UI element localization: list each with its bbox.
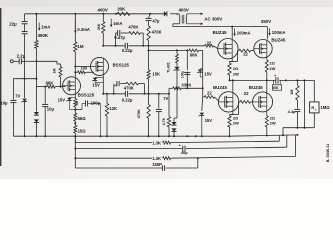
- svg-text:390K: 390K: [38, 33, 49, 38]
- current arrow 100mA Q6: [269, 28, 271, 35]
- svg-text:100mA: 100mA: [237, 31, 251, 36]
- svg-text:100µ: 100µ: [181, 71, 185, 78]
- resistor 2ohm source Q8: [266, 112, 268, 116]
- svg-text:2.2µ: 2.2µ: [17, 53, 26, 58]
- svg-text:470K: 470K: [124, 85, 134, 90]
- transistor Q1 BSS125 lower: [63, 77, 81, 95]
- capacitor 0.22u upper: [124, 43, 126, 49]
- svg-text:1M: 1M: [77, 44, 83, 49]
- capacitor 100u mid: [158, 94, 160, 109]
- svg-text:100mA: 100mA: [272, 30, 286, 35]
- wire top rail after diode: [170, 13, 177, 15]
- svg-text:30K: 30K: [117, 7, 126, 12]
- svg-text:2W: 2W: [233, 121, 239, 126]
- svg-text:7V: 7V: [15, 93, 20, 98]
- resistor gate stopper vertical: [59, 67, 62, 78]
- svg-text:47µ: 47µ: [152, 19, 160, 24]
- svg-text:1M: 1M: [53, 69, 57, 74]
- svg-text:600: 600: [273, 86, 279, 90]
- svg-text:56: 56: [75, 101, 79, 105]
- transformer T1 secondary: [185, 15, 188, 18]
- svg-text:1.3K: 1.3K: [152, 156, 161, 161]
- svg-text:4.4µ: 4.4µ: [288, 109, 297, 114]
- svg-text:100: 100: [81, 65, 88, 70]
- svg-text:15Ω: 15Ω: [78, 129, 87, 134]
- svg-text:1mA: 1mA: [41, 25, 50, 30]
- resistor 22 gate Q6: [237, 51, 239, 62]
- transistor Q2 BSS125 upper: [91, 57, 109, 75]
- svg-text:15V: 15V: [58, 98, 66, 103]
- scan left edge mark: [0, 8, 1, 166]
- regulator TL431: [176, 50, 178, 54]
- capacitor 40u feedback: [75, 148, 182, 150]
- zener 15V upper gate: [200, 68, 203, 70]
- ground rail: [13, 135, 229, 137]
- svg-text:1MΩ: 1MΩ: [320, 105, 330, 110]
- svg-text:470K: 470K: [137, 109, 141, 118]
- resistor 390K: [35, 14, 37, 41]
- input terminal: [10, 60, 13, 63]
- zener 15V lower gate: [201, 97, 204, 111]
- capacitor 22u dual: [24, 14, 26, 21]
- svg-text:2W: 2W: [233, 71, 239, 76]
- svg-text:BUZ45: BUZ45: [213, 85, 227, 90]
- svg-text:36K: 36K: [97, 23, 101, 30]
- svg-text:66K: 66K: [46, 80, 54, 85]
- wire TL431 chain to ground: [176, 88, 178, 118]
- diodes D2 D3 series: [35, 87, 37, 112]
- node 350V rail: [173, 26, 268, 28]
- transformer core: [181, 15, 183, 24]
- resistor 56ohm: [74, 107, 76, 113]
- wire parallel load left: [304, 80, 306, 127]
- resistor 22 gate Q5: [205, 44, 214, 47]
- svg-text:0.22µ: 0.22µ: [122, 48, 133, 53]
- svg-text:66K: 66K: [190, 53, 198, 58]
- resistor 4.7K: [168, 94, 170, 117]
- resistor 56 upper source chain: [74, 99, 77, 107]
- svg-text:22: 22: [243, 52, 248, 57]
- svg-text:470K: 470K: [152, 30, 162, 35]
- svg-text:40µ: 40µ: [181, 150, 188, 155]
- capacitor 100u TL431: [186, 72, 188, 89]
- svg-text:15V: 15V: [92, 83, 100, 88]
- primary bottom return: [173, 23, 179, 25]
- wire Q1 source lead: [74, 95, 76, 99]
- svg-text:7V: 7V: [163, 96, 168, 101]
- svg-text:BUZ45: BUZ45: [213, 30, 227, 35]
- capacitor 4.7u output: [296, 100, 298, 109]
- wire drive upper: [103, 45, 125, 47]
- svg-text:100µ: 100µ: [91, 101, 101, 106]
- capacitor 47u supply: [149, 14, 151, 18]
- svg-text:150P: 150P: [152, 162, 162, 167]
- svg-text:BUZ45: BUZ45: [271, 38, 285, 43]
- resistor 1M output: [296, 80, 298, 85]
- junction dots top rail: [35, 13, 37, 15]
- svg-text:22: 22: [207, 91, 212, 96]
- wire Q1 drain: [74, 72, 76, 77]
- wire rail to Q6 drain: [266, 27, 268, 40]
- zener 15V at Q2: [95, 76, 103, 78]
- svg-text:22µ: 22µ: [9, 21, 17, 26]
- svg-text:10µ: 10µ: [47, 107, 55, 112]
- wire2 to gate column: [202, 50, 204, 97]
- resistor 66K gate: [36, 86, 47, 88]
- diode D1 on top rail: [164, 11, 167, 16]
- svg-text:22: 22: [207, 40, 212, 45]
- svg-text:2W: 2W: [269, 66, 275, 71]
- svg-text:B. 3046-11: B. 3046-11: [326, 144, 330, 163]
- svg-text:BSS125: BSS125: [78, 92, 95, 97]
- capacitor 150P feedback: [75, 167, 162, 169]
- svg-text:22: 22: [244, 91, 249, 96]
- svg-text:12K: 12K: [109, 106, 117, 111]
- resistor 330K: [168, 88, 170, 94]
- resistor 470K vertical lower: [148, 94, 150, 105]
- current arrow 100mA Q5: [234, 28, 236, 36]
- wire Q7 drain up: [232, 80, 234, 92]
- resistor 470K vertical mid: [147, 26, 150, 41]
- resistor 30K on top rail: [117, 12, 130, 15]
- svg-text:1M: 1M: [290, 90, 294, 95]
- node wire2 start: [148, 45, 150, 47]
- wire Q7 source jog: [230, 112, 233, 114]
- resistor 15K mid column: [148, 50, 150, 70]
- svg-text:350V: 350V: [261, 19, 271, 24]
- RC network 470K cap lower: [113, 86, 115, 94]
- resistor 12K: [106, 94, 108, 104]
- svg-text:2W: 2W: [270, 121, 276, 126]
- wire Q5 drain: [231, 27, 233, 39]
- resistor 66K series wire2: [189, 49, 199, 52]
- box 600 ohm: [272, 85, 281, 90]
- svg-text:BSS125: BSS125: [113, 62, 130, 67]
- resistor 36K vertical: [102, 14, 104, 22]
- svg-text:15V: 15V: [204, 72, 212, 77]
- capacitor 10u left: [10, 99, 16, 101]
- current arrow 4mA: [110, 19, 112, 27]
- node input junction: [35, 60, 37, 62]
- svg-text:15V: 15V: [205, 118, 213, 123]
- feedback vertical left: [74, 136, 76, 168]
- resistor 22 gate Q8: [238, 102, 240, 115]
- svg-text:0.22µ: 0.22µ: [122, 97, 133, 102]
- svg-text:TL431: TL431: [167, 62, 171, 73]
- capacitor output electrolytic: [275, 77, 277, 83]
- load resistor RL box: [313, 80, 315, 102]
- resistor 22 gate Q7: [203, 96, 205, 98]
- svg-text:4mA: 4mA: [113, 21, 122, 26]
- zener 7V: [24, 79, 26, 98]
- transistor Q7 BUZ45 lower-left: [218, 92, 238, 112]
- capacitor 2.2u input: [13, 60, 19, 62]
- current arrow 0.3mA: [74, 20, 76, 33]
- feedback line1 with 1.3K: [75, 142, 152, 144]
- wire input to gate resistor: [36, 60, 57, 62]
- capacitor 0.22u lower: [124, 91, 126, 97]
- node +400V top rail: [25, 13, 164, 15]
- svg-text:L: L: [315, 107, 317, 111]
- wire bias row y78: [13, 78, 36, 80]
- current arrow 1mA: [38, 23, 40, 31]
- capacitor 10u second: [44, 87, 46, 104]
- resistor 2ohm source Q7: [229, 115, 231, 116]
- svg-text:400V: 400V: [98, 8, 108, 13]
- wire load bottom: [283, 127, 314, 129]
- svg-text:10µ: 10µ: [0, 101, 8, 106]
- capacitor 100u at source: [75, 109, 82, 111]
- wire Q2 source down: [102, 75, 104, 93]
- wire Q5 source jog: [230, 59, 233, 62]
- svg-text:15K: 15K: [152, 71, 160, 76]
- svg-text:+: +: [179, 143, 181, 147]
- transistor Q6 BUZ45 upper-right: [254, 40, 272, 58]
- svg-text:400V: 400V: [179, 7, 189, 12]
- wire drive lower y94: [103, 93, 125, 95]
- transistor Q8 BUZ45 lower-right: [253, 92, 273, 112]
- svg-text:4.7K: 4.7K: [162, 117, 166, 125]
- resistor 2ohm source Q6: [266, 58, 268, 60]
- resistor 2ohm source Q5: [229, 62, 231, 64]
- svg-text:2Ω: 2Ω: [269, 60, 275, 65]
- wire Q8 drain up: [266, 80, 268, 92]
- secondary output arrows AC: [187, 13, 203, 15]
- wire output rail: [230, 79, 276, 81]
- transformer T1 primary: [176, 14, 178, 15]
- resistor 100 interstage: [74, 71, 76, 73]
- svg-text:0.3mA: 0.3mA: [77, 27, 90, 32]
- svg-text:470K: 470K: [128, 25, 138, 30]
- feedback line2 with 1.3K: [75, 157, 152, 159]
- svg-text:56Ω: 56Ω: [78, 116, 87, 121]
- diodes bias pair: [174, 117, 177, 119]
- svg-text:0.47µ: 0.47µ: [114, 35, 125, 40]
- svg-text:BUZ45: BUZ45: [249, 85, 263, 90]
- wire drive lower horizontal: [149, 49, 189, 51]
- resistor 15ohm: [74, 122, 76, 124]
- RC network 0.47u 470K upper: [115, 33, 117, 46]
- svg-text:1.3K: 1.3K: [152, 141, 161, 146]
- svg-text:330K: 330K: [181, 82, 191, 87]
- resistor 1M: [74, 14, 76, 42]
- transistor Q5 BUZ45 upper-left: [218, 39, 238, 59]
- svg-text:AC 300V: AC 300V: [204, 17, 222, 22]
- wire gate Q2: [74, 65, 76, 67]
